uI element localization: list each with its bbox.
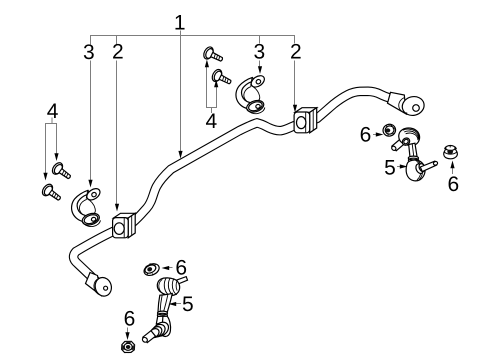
nut (6) E small flange nut (381, 123, 397, 138)
svg-text:6: 6 (448, 173, 460, 196)
bushing (2) left block (113, 213, 136, 238)
svg-text:3: 3 (254, 41, 266, 64)
bushing (2) right block (294, 108, 317, 133)
stabilizer bar right eyelet (399, 94, 426, 117)
bolt (4) D lower-right (210, 68, 233, 88)
link (5) left : neck (158, 293, 172, 311)
stabilizer bar (1) tube outline (74, 91, 394, 282)
arrowhead for 2 left (115, 204, 119, 212)
nut (6) G flange nut tilted (142, 262, 161, 278)
nut (6) F flanged cap nut (444, 145, 458, 158)
link (5) right : upper stud (391, 128, 438, 181)
arrowhead for 3 left (88, 180, 92, 188)
link (5) left : lower neck taper (156, 316, 167, 324)
leader 6 F (arrow up) (452, 167, 454, 175)
link (5) right : upper ball dome (399, 128, 420, 146)
arrowhead for 2 right (293, 105, 297, 113)
arrowhead 4 right a (up) (205, 60, 209, 68)
svg-text:2: 2 (112, 41, 124, 64)
bolt (4) C upper-right (202, 45, 225, 65)
nut (6) H hex nut (122, 341, 135, 352)
svg-text:2: 2 (290, 40, 302, 63)
arrowhead 4 right b (up) (214, 80, 218, 88)
bolt (4) A upper-left (50, 161, 73, 183)
link (5) right : neck (409, 143, 417, 157)
arrowhead for 3 right (258, 66, 262, 74)
link (5) left : socket rings (151, 319, 171, 339)
svg-text:4: 4 (47, 100, 59, 123)
link (5) right : socket rings (414, 163, 424, 175)
leader line group 1-2-3 top (91, 31, 295, 206)
svg-text:5: 5 (182, 293, 194, 316)
leader group 4 left (46, 118, 57, 175)
link (5) right : lower stud (420, 161, 436, 171)
svg-text:3: 3 (83, 41, 95, 64)
leader 6 H (arrow down) (127, 328, 129, 334)
stabilizer bar left eyelet (93, 276, 114, 298)
bolt (4) B lower-left (40, 182, 63, 204)
link (5) left : lower arm plate (160, 316, 171, 336)
link (5) right : lower bulb (406, 160, 425, 181)
svg-text:6: 6 (175, 257, 187, 280)
arrowhead 4 left a (43, 173, 47, 181)
svg-text:5: 5 (384, 157, 396, 180)
leader group 4 right (207, 66, 217, 114)
arrowhead for 1 (178, 151, 182, 159)
link (5) right : collar (408, 156, 418, 160)
link (5) left : collar (158, 311, 168, 315)
link (5) left : lower stud (143, 331, 156, 343)
bracket (3) left (72, 186, 103, 227)
stabilizer bar right end cone (388, 92, 407, 114)
svg-text:1: 1 (174, 12, 186, 35)
arrowhead 4 left b (54, 153, 58, 161)
bracket (3) right (236, 73, 267, 114)
svg-text:6: 6 (360, 123, 372, 146)
svg-text:6: 6 (124, 308, 136, 331)
stabilizer bar left end cone (86, 273, 102, 296)
link (5) left : upper stud (141, 277, 187, 344)
svg-text:4: 4 (205, 110, 217, 133)
link (5) left : upper ball dome (157, 278, 179, 296)
leader 6 E (arrow right) (373, 134, 378, 136)
leader 5 left (arrow left) (175, 303, 181, 305)
leader 6 G (arrow left) (168, 267, 173, 269)
leader 5 right (arrow right) (397, 166, 402, 168)
